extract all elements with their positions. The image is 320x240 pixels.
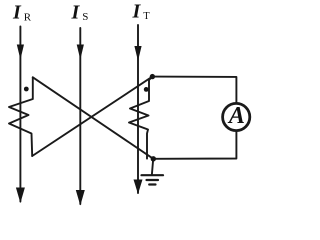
junction: top node <box>150 74 155 79</box>
inductor L2: right CT secondary winding zigzag <box>129 77 152 159</box>
ammeter U1: meter circle <box>223 103 250 130</box>
svg-text:I: I <box>132 0 142 22</box>
arrowhead: conductor T bottom end <box>134 180 143 195</box>
ground: bar 1 <box>142 174 164 176</box>
wire: diagonal from left winding bottom to top junction <box>32 77 152 156</box>
ground: stem <box>152 159 153 175</box>
svg-text:T: T <box>143 11 150 22</box>
arrowhead: current arrow on conductor S (top) <box>77 45 84 60</box>
label I_R <box>12 1 32 23</box>
junction: bottom node <box>151 156 156 161</box>
wire: diagonal from left winding top to bottom junction <box>33 77 154 159</box>
arrowhead: conductor S bottom end <box>76 190 85 206</box>
arrowhead: current arrow on conductor R (top) <box>17 45 24 60</box>
wire: phase conductor S vertical line <box>79 28 81 204</box>
wire: bottom wire from ammeter loop to bottom junction <box>153 131 236 158</box>
svg-text:R: R <box>24 12 32 24</box>
svg-text:S: S <box>82 11 88 23</box>
svg-text:A: A <box>227 103 245 129</box>
arrowhead: conductor R bottom end <box>16 188 25 204</box>
arrowhead: current arrow on conductor T (top) <box>134 46 141 61</box>
svg-text:I: I <box>12 1 22 23</box>
polarity dot: right winding <box>144 87 149 92</box>
inductor L1: left CT secondary winding zigzag <box>9 77 33 156</box>
ground: bar 3 <box>149 183 155 185</box>
wire: phase conductor T vertical line <box>137 25 139 193</box>
label I_T <box>132 0 151 22</box>
polarity dot: left winding <box>24 87 29 92</box>
wire: top wire from top junction to ammeter loop <box>152 77 236 103</box>
ground: bar 2 <box>147 179 159 181</box>
svg-text:I: I <box>71 1 81 23</box>
wire: phase conductor R vertical line <box>19 27 21 202</box>
label I_S <box>71 1 89 23</box>
